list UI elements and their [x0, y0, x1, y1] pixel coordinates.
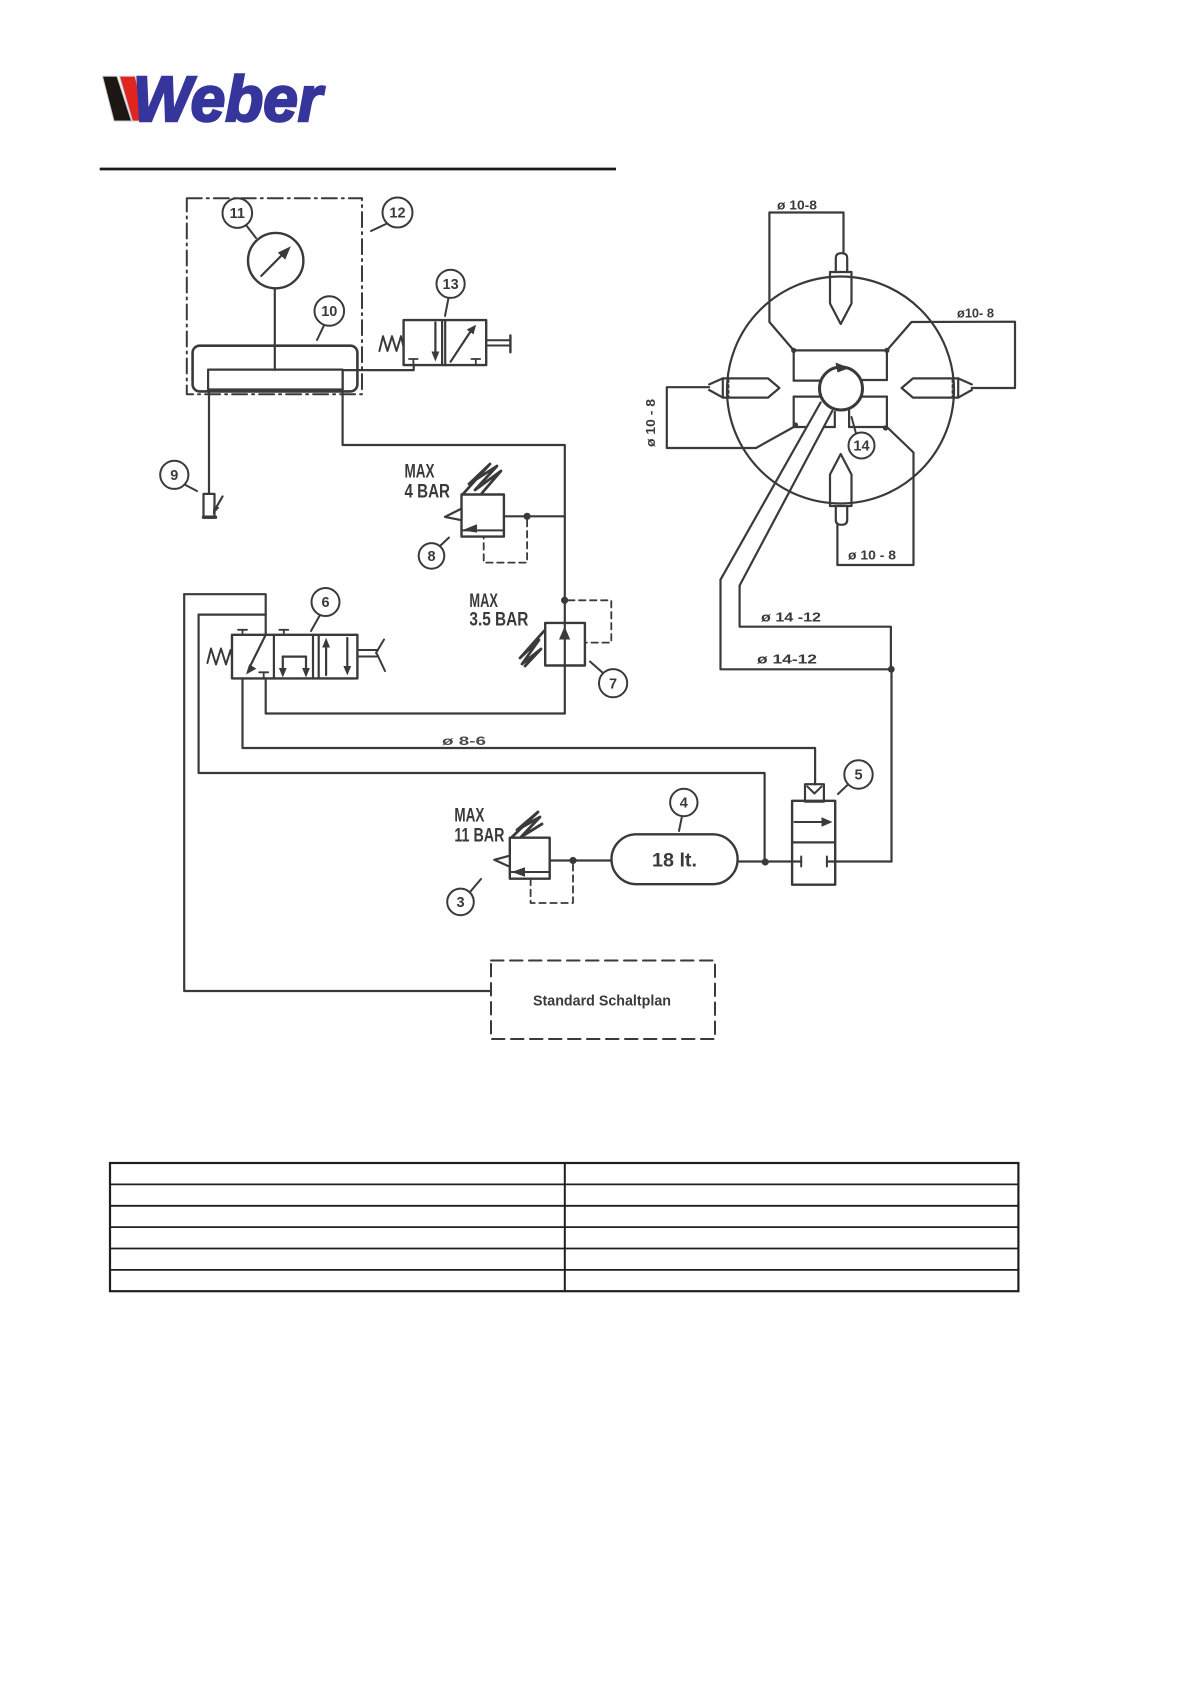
svg-text:ø 10 - 8: ø 10 - 8 — [644, 399, 658, 447]
svg-text:ø 8-6: ø 8-6 — [442, 734, 487, 748]
svg-text:10: 10 — [321, 304, 337, 320]
svg-text:12: 12 — [389, 206, 405, 222]
svg-text:9: 9 — [170, 468, 178, 484]
svg-text:4: 4 — [680, 796, 688, 812]
svg-text:3: 3 — [456, 895, 464, 911]
svg-text:ø 14 -12: ø 14 -12 — [761, 610, 821, 625]
svg-text:18 lt.: 18 lt. — [652, 850, 697, 872]
svg-text:ø10- 8: ø10- 8 — [957, 307, 994, 321]
svg-text:11: 11 — [230, 206, 245, 222]
svg-text:MAX: MAX — [454, 806, 484, 827]
svg-text:11 BAR: 11 BAR — [454, 826, 504, 847]
svg-text:7: 7 — [609, 676, 617, 692]
svg-text:Weber: Weber — [133, 63, 325, 135]
svg-text:13: 13 — [443, 277, 459, 293]
svg-text:4 BAR: 4 BAR — [405, 482, 451, 503]
svg-text:ø 10-8: ø 10-8 — [777, 199, 817, 213]
svg-text:3.5 BAR: 3.5 BAR — [469, 610, 528, 631]
svg-text:6: 6 — [321, 595, 329, 611]
svg-text:ø 14-12: ø 14-12 — [757, 652, 817, 667]
svg-text:Standard Schaltplan: Standard Schaltplan — [533, 994, 671, 1010]
svg-text:5: 5 — [854, 768, 862, 784]
svg-text:MAX: MAX — [405, 462, 435, 483]
svg-text:ø 10 - 8: ø 10 - 8 — [848, 549, 896, 563]
svg-text:8: 8 — [427, 549, 435, 565]
svg-text:14: 14 — [853, 439, 869, 455]
